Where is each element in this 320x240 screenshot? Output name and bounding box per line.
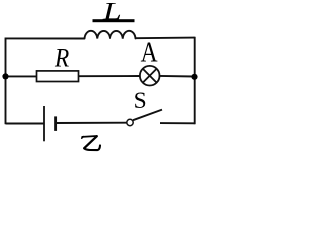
wire: battery to switch <box>56 122 127 124</box>
resistor R (box) <box>37 71 79 82</box>
inductor L (coil, 4 humps) <box>85 31 136 39</box>
battery cell: short plate (negative) <box>54 116 57 130</box>
wire: lamp to right node <box>159 75 195 78</box>
wire: left vertical <box>5 38 7 125</box>
wire: switch to bottom-right corner <box>160 122 195 124</box>
wire: resistor to lamp <box>79 75 140 77</box>
label 乙 (hand-drawn glyph) <box>82 136 100 150</box>
switch S: pivot circle <box>127 119 133 125</box>
underline under L <box>93 19 135 22</box>
node left (junction dot) <box>2 73 8 79</box>
wire: top-left horizontal segment <box>6 37 85 39</box>
wire: middle branch left (node to resistor) <box>6 75 37 77</box>
wire: right vertical <box>194 37 196 125</box>
lamp A (circle with cross) <box>140 66 160 86</box>
wire: bottom-left segment (to battery) <box>6 123 45 125</box>
battery cell: long plate (positive) <box>43 106 45 141</box>
node right (junction dot) <box>191 74 197 80</box>
svg-text:A: A <box>141 37 158 68</box>
switch S: lever arm (open) <box>133 110 162 121</box>
wire: top-right horizontal segment <box>136 37 195 40</box>
svg-text:S: S <box>134 88 147 114</box>
svg-text:R: R <box>54 44 69 73</box>
